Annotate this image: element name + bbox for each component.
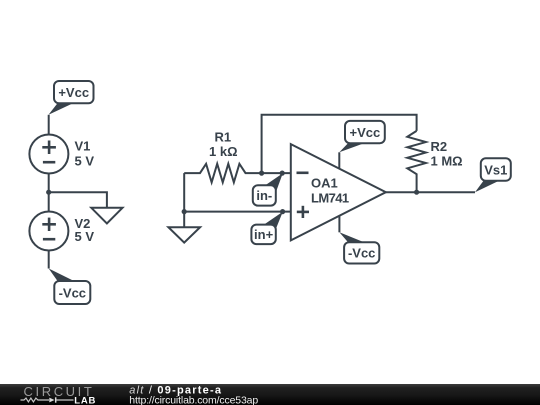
- svg-text:LM741: LM741: [311, 190, 349, 205]
- node junction at ground (right): [182, 209, 187, 214]
- voltage source V1: [29, 135, 68, 174]
- wire V1 bottom to junction: [48, 174, 50, 193]
- wire feedback loop: [262, 115, 417, 173]
- svg-text:5 V: 5 V: [75, 229, 95, 244]
- wire to in+ node: [184, 211, 291, 213]
- svg-text:+Vcc: +Vcc: [58, 85, 89, 100]
- footer bar: [0, 384, 540, 405]
- ground (right) stem: [183, 212, 185, 228]
- wire R1 left lead down: [183, 173, 185, 212]
- op-amp inverting input marker -: [297, 172, 309, 175]
- net flag in-: [253, 173, 283, 205]
- wire output: [386, 191, 475, 193]
- node junction feedback tap: [259, 171, 264, 176]
- svg-text:1 kΩ: 1 kΩ: [209, 144, 238, 159]
- label R1 1 kOhm: [209, 130, 238, 159]
- node junction in+ tap: [280, 209, 285, 214]
- net flag in+: [251, 212, 282, 244]
- node junction in- tap: [280, 171, 285, 176]
- net flag +Vcc (left, node +Vcc): [49, 81, 94, 115]
- wire junction to ground (left): [49, 192, 107, 208]
- svg-text:in-: in-: [256, 188, 272, 203]
- svg-text:V1: V1: [75, 139, 91, 154]
- svg-text:R1: R1: [214, 130, 231, 145]
- footer caption: [129, 384, 258, 405]
- label R2 1 MOhm: [431, 139, 463, 169]
- label OA1 LM741: [311, 176, 349, 206]
- ground (left): [91, 208, 122, 224]
- ground (right): [168, 227, 200, 242]
- svg-text:1 MΩ: 1 MΩ: [431, 154, 463, 169]
- wire op-amp V- pin: [338, 216, 340, 232]
- svg-text:http://circuitlab.com/cce53ap: http://circuitlab.com/cce53ap: [129, 395, 258, 405]
- wire op-amp V+ pin: [338, 152, 340, 168]
- svg-text:LAB: LAB: [74, 395, 96, 405]
- CircuitLab logo: [21, 384, 97, 405]
- voltage source V2: [29, 212, 68, 251]
- svg-text:Vs1: Vs1: [484, 163, 507, 178]
- net flag +Vcc (op-amp): [339, 121, 385, 152]
- svg-text:-Vcc: -Vcc: [348, 246, 375, 261]
- op-amp OA1 triangle: [291, 144, 386, 240]
- wire V2 bottom to -Vcc flag: [48, 251, 50, 269]
- svg-text:R2: R2: [431, 139, 448, 154]
- svg-text:+Vcc: +Vcc: [350, 125, 381, 140]
- op-amp non-inverting input marker +: [297, 206, 309, 218]
- label V1 5 V: [75, 139, 95, 169]
- net flag Vs1: [475, 158, 511, 192]
- svg-text:in+: in+: [254, 227, 274, 242]
- node junction between V1 and V2: [46, 190, 51, 195]
- resistor R2: [407, 131, 426, 192]
- net flag -Vcc (left, node -Vcc): [49, 269, 91, 305]
- resistor R1: [184, 164, 291, 183]
- svg-text:-Vcc: -Vcc: [59, 285, 86, 300]
- node junction output: [414, 190, 419, 195]
- label V2 5 V: [75, 216, 95, 244]
- svg-text:5 V: 5 V: [75, 153, 95, 168]
- net flag -Vcc (op-amp): [339, 232, 379, 263]
- wire +Vcc flag to V1 top: [48, 115, 50, 135]
- svg-text:OA1: OA1: [311, 176, 338, 191]
- wire junction to V2 top: [48, 192, 50, 211]
